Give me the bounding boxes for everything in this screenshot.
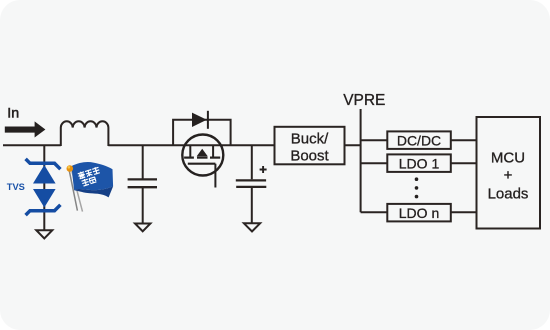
capacitor C1 [128, 179, 157, 187]
mosfet Q1 right contact [210, 157, 220, 159]
wire bus to LDOn [361, 211, 387, 213]
diode D2 [192, 113, 207, 127]
ground C2 [244, 223, 260, 231]
block Buck/Boost [275, 127, 345, 165]
flag text line2 [81, 176, 96, 187]
flag banner [71, 162, 113, 190]
mosfet Q1 body arrow [197, 149, 208, 156]
svg-text:LDO n: LDO n [399, 205, 439, 221]
svg-text:Loads: Loads [488, 186, 529, 203]
svg-text:In: In [7, 106, 19, 122]
mosfet Q1 left stub [189, 146, 191, 157]
TVS D1 bottom diode [33, 189, 56, 208]
wire C1 to ground [142, 188, 144, 224]
mosfet Q1 gate lead [214, 164, 216, 188]
TVS D1 top diode [33, 165, 56, 184]
ground TVS [36, 230, 52, 238]
dots ellipsis [415, 177, 419, 181]
wire main mid [108, 144, 274, 146]
flag ball [67, 165, 74, 172]
wire main left [3, 144, 61, 146]
mosfet Q1 right stub [212, 146, 214, 157]
wire C1 drop [142, 145, 144, 179]
ground C1 [135, 224, 150, 232]
svg-text:LDO 1: LDO 1 [399, 155, 440, 171]
svg-text:Buck/: Buck/ [291, 131, 329, 148]
wire LDO1 to MCU [451, 162, 476, 164]
wire C2 to ground [251, 188, 253, 223]
bus VPRE [360, 109, 362, 212]
mosfet Q1 body circle [182, 135, 223, 176]
svg-text:VPRE: VPRE [343, 92, 385, 109]
svg-text:TVS: TVS [7, 182, 25, 192]
inductor L1 [61, 121, 109, 146]
wire DC/DC to MCU [451, 139, 476, 141]
wire C2 drop [251, 145, 253, 179]
svg-text:+: + [504, 167, 513, 184]
svg-text:Boost: Boost [290, 148, 329, 165]
capacitor C2 [236, 180, 266, 187]
flag pole [69, 171, 77, 210]
mosfet Q1 gate bar [188, 163, 216, 165]
wire TVS junction drop [43, 145, 45, 229]
block LDO1 [387, 154, 451, 172]
plus label C2 [260, 166, 267, 173]
wire bus to LDO1 [361, 162, 387, 164]
TVS D1 top bar [26, 159, 61, 169]
wire LDOn to MCU [451, 211, 476, 213]
watermark flag [67, 162, 114, 212]
flag banner fold [74, 186, 113, 197]
wire bus to DC/DC [361, 139, 387, 141]
mosfet Q1 middle contact [197, 157, 208, 159]
block LDOn [387, 204, 451, 222]
block DC/DC [387, 131, 451, 149]
diode D2 loop wire [173, 120, 231, 146]
wire buck to bus [345, 144, 361, 146]
block MCU [477, 117, 541, 229]
svg-text:MCU: MCU [491, 150, 525, 167]
input arrow [5, 121, 46, 137]
svg-text:DC/DC: DC/DC [397, 132, 441, 148]
flag text line1 [77, 166, 100, 180]
diode D2 cathode bar [207, 111, 209, 129]
mosfet Q1 left contact [184, 157, 194, 159]
TVS D1 bottom bar [26, 205, 61, 215]
